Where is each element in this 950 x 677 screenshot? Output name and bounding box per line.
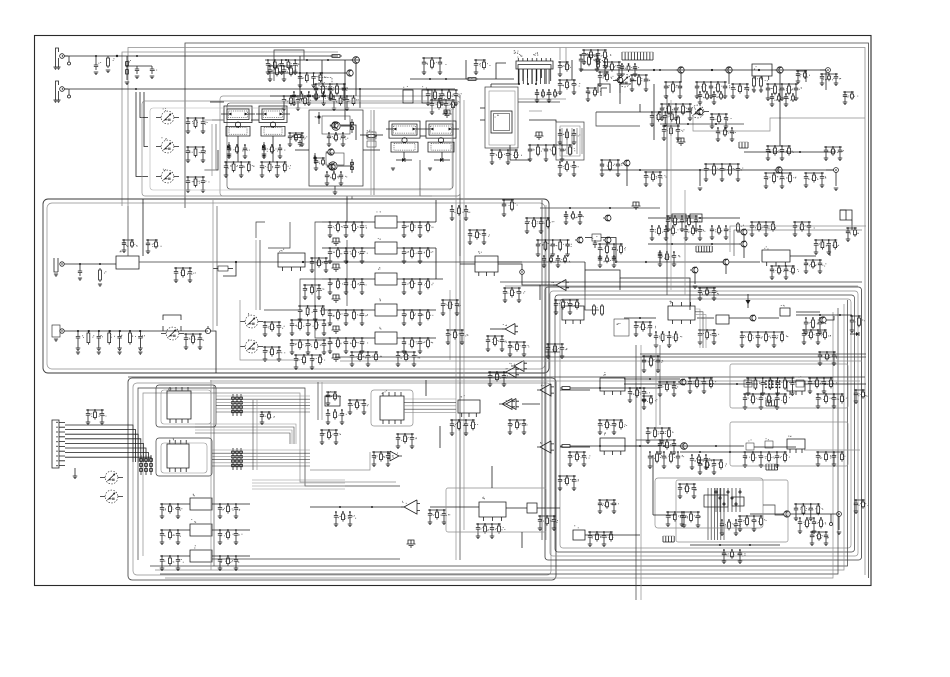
capacitor bank MR15 xyxy=(846,227,859,241)
capacitor bank TR15 xyxy=(600,159,624,176)
wire play to dolby xyxy=(211,331,216,373)
wire relay3 drop xyxy=(404,136,442,160)
capacitor bank U304 R xyxy=(402,309,434,325)
connector CN202 comb xyxy=(739,142,748,148)
pi filter FL310 xyxy=(632,202,641,209)
capacitor bank MR22 xyxy=(542,255,571,267)
capacitor bank play 2 xyxy=(184,333,204,349)
border frame outer xyxy=(35,36,872,586)
capacitor bank ML3 xyxy=(298,305,329,321)
wire tr corner xyxy=(806,70,826,90)
wire U301 in xyxy=(322,221,436,223)
comb CN501 xyxy=(766,464,778,470)
transistor Q101 xyxy=(330,122,338,128)
wire long v347 xyxy=(351,196,353,199)
wire U401 loop2 xyxy=(161,390,211,424)
wire bias rail xyxy=(410,78,514,80)
wire stair 1 xyxy=(347,196,362,222)
wire ce drop xyxy=(460,220,475,264)
capacitor bank U210 top xyxy=(122,239,138,252)
capacitor bank TR8 xyxy=(796,70,810,83)
capacitor bank TR28 xyxy=(770,93,799,106)
transistor Q501 xyxy=(782,511,790,517)
capacitor bank bm3 xyxy=(372,451,394,466)
capacitor bank MR21 xyxy=(628,387,650,402)
wire mr 244 wire xyxy=(648,243,740,245)
capacitor bank dolby 2 xyxy=(263,346,285,361)
diode D105 xyxy=(391,158,412,170)
capacitor bank bias xyxy=(426,89,462,105)
wire bottom bus 4 xyxy=(165,312,833,578)
capacitor C103 xyxy=(150,66,157,79)
wire long h json xyxy=(310,452,370,470)
IC U202 core xyxy=(491,111,512,133)
capacitor bank PS1 xyxy=(666,511,688,526)
IC U340 xyxy=(600,372,625,395)
wire mr link xyxy=(700,261,760,263)
capacitor bank C3 xyxy=(536,239,572,256)
wire mr row2 link xyxy=(796,314,852,316)
transistor Q321 xyxy=(678,379,686,385)
pi filter FL305 xyxy=(332,354,341,361)
capacitor bank bm4 xyxy=(396,433,417,448)
resistor R211 xyxy=(597,57,608,69)
IC U304 filter xyxy=(375,299,397,317)
IC U412 regulator xyxy=(190,545,212,562)
capacitor bank MR17 xyxy=(698,287,719,300)
capacitor bank AR3 xyxy=(646,427,674,443)
wire switch feed 1 xyxy=(140,92,148,118)
capacitor bank HA1 xyxy=(266,59,300,74)
capacitor bank reg0 R xyxy=(218,503,240,518)
resistor R102 xyxy=(125,56,131,85)
capacitor bank U303 R xyxy=(402,278,434,294)
wire ml link347 xyxy=(346,240,348,306)
capacitor bank PS4 xyxy=(854,499,869,513)
capacitor bank TR7 xyxy=(766,83,802,100)
wire reg1 xyxy=(160,529,250,531)
capacitor bank CE6 xyxy=(446,329,469,344)
IC U321 xyxy=(762,246,790,266)
IC U341 xyxy=(562,301,584,324)
capacitor bank CE1 xyxy=(450,205,470,220)
wire digital right pair xyxy=(318,382,322,420)
transistor Q322 xyxy=(679,443,688,450)
capacitor bank TR3 xyxy=(630,74,650,91)
node tr j1 xyxy=(653,69,760,71)
op-amp U425 xyxy=(401,500,420,514)
capacitor bank MR25 xyxy=(850,315,865,332)
IC U402 xyxy=(167,438,189,472)
transistor Q302 xyxy=(575,237,583,243)
capacitor bank TR6 xyxy=(731,83,753,98)
capacitor bank Q102 xyxy=(314,157,330,170)
capacitor bank MR2 xyxy=(750,221,776,236)
transistor Q102 xyxy=(326,149,334,155)
capacitor bank RB1 xyxy=(224,161,255,177)
capacitor C131 xyxy=(313,153,316,164)
node rec junction xyxy=(616,261,724,263)
wire branch down xyxy=(223,262,585,290)
transistor Q104 xyxy=(345,70,353,76)
wire tr chain2 xyxy=(640,111,692,113)
transistor Q103 xyxy=(327,164,335,170)
wire mid horizontal H1 xyxy=(128,376,865,378)
wire ps drop xyxy=(837,516,842,534)
wire vertical 656 xyxy=(656,340,660,430)
wire bm vert xyxy=(426,380,440,448)
wire vertical bus V1b xyxy=(459,95,461,560)
wire mid-right bus 2 xyxy=(505,285,858,287)
IC U302 filter xyxy=(375,238,397,254)
transistor Q202 xyxy=(724,67,732,73)
wire bottom bus 1 xyxy=(150,300,848,566)
IC U419 xyxy=(325,391,340,406)
capacitor bank DG1 xyxy=(326,391,341,405)
connector TP301 xyxy=(520,270,525,275)
connector TP502 xyxy=(830,514,833,526)
IC U421 xyxy=(458,395,480,417)
wire bottom-left nest 3 xyxy=(138,388,400,560)
capacitor bank MR10 xyxy=(650,225,679,240)
capacitor C212 xyxy=(658,250,662,262)
wire bm row507 xyxy=(310,506,404,508)
capacitor bank amp0 in xyxy=(658,381,678,396)
capacitor bank filter low2 xyxy=(396,351,420,366)
wire tr drop2 xyxy=(620,73,681,104)
capacitor bank TM5 xyxy=(474,59,491,74)
wire U302 in xyxy=(322,247,436,249)
wire amp row1 net xyxy=(624,383,758,385)
wire mr row330 xyxy=(624,317,656,319)
resistor R361 dashed xyxy=(796,376,804,387)
wire vertical bus V5b xyxy=(259,240,261,310)
IC U342 xyxy=(600,433,625,456)
wire branch node xyxy=(126,65,152,67)
capacitor bank PS2 xyxy=(810,531,829,545)
resistor R363 dashed xyxy=(765,438,773,448)
capacitor bank dolby 3 xyxy=(290,319,330,335)
ground q-stage xyxy=(333,186,338,195)
wire bm drop xyxy=(492,466,522,548)
capacitor bank right col xyxy=(854,389,869,403)
capacitor bank U204 xyxy=(558,129,581,144)
capacitor bank AR2 xyxy=(642,395,658,409)
resistor R131 xyxy=(351,159,354,173)
capacitor bank S102 xyxy=(186,146,206,162)
wire tr jack link xyxy=(826,170,838,191)
IC U331 xyxy=(716,315,729,324)
wire tr drop 654 xyxy=(653,84,655,140)
capacitor bank RB2 xyxy=(260,161,291,177)
wire mr drop b xyxy=(693,273,698,289)
wire relay drop xyxy=(238,136,273,162)
relay RY104 xyxy=(423,121,459,152)
wire vertical bus V3 xyxy=(541,200,543,540)
connector J201 rec-out xyxy=(54,258,64,276)
wire mid horizontal H2 xyxy=(210,380,860,382)
wire vertical bus V2 xyxy=(463,100,465,530)
IC U320 xyxy=(672,214,702,222)
capacitor bank TR18 xyxy=(804,172,827,187)
wire top bus C xyxy=(122,52,338,206)
wire top bus B xyxy=(128,48,865,576)
capacitor bank reg2 R xyxy=(218,555,240,570)
capacitor bank BM9 xyxy=(558,475,579,490)
pi filter FL301 xyxy=(332,238,341,245)
capacitor bank TR14 xyxy=(824,146,844,160)
wire vertical 667 xyxy=(667,95,671,295)
capacitor bank PS6 xyxy=(798,517,826,533)
wire head-amp loop xyxy=(220,96,460,196)
wire tr chain xyxy=(614,69,826,71)
capacitor bank TR4 xyxy=(664,81,683,98)
resistor R351 xyxy=(560,445,572,448)
capacitor bank HA2 xyxy=(298,72,327,87)
wire amp0 chain xyxy=(572,387,660,389)
wire bottom bus 2 xyxy=(155,304,844,570)
capacitor bank U425 in xyxy=(428,509,450,524)
capacitor bank QS1 xyxy=(327,132,348,146)
wire psu stair xyxy=(763,505,784,515)
capacitor bank TR26 xyxy=(620,63,639,76)
switch S210 xyxy=(161,327,184,340)
switch corner S206 xyxy=(620,84,631,93)
resistor R220 xyxy=(98,268,106,286)
capacitor bank TR13 xyxy=(766,145,794,160)
transistor Q107 xyxy=(327,162,337,170)
wire amp1 loop xyxy=(730,422,848,466)
wire ce stair xyxy=(436,200,443,279)
transistor Q303 xyxy=(603,237,611,243)
wire vertical bus V1 xyxy=(455,95,457,560)
wire loop pair xyxy=(371,110,374,195)
wire U305 in xyxy=(322,337,436,339)
capacitor bank U427 xyxy=(538,515,558,530)
capacitor bank TR2 xyxy=(603,61,624,76)
wire ps row xyxy=(690,544,780,546)
capacitor bank MR24 xyxy=(564,211,584,224)
switch S101 xyxy=(156,108,179,124)
capacitor bank MR18 xyxy=(634,321,656,336)
IC U310 xyxy=(475,251,498,276)
capacitor bank MR4 xyxy=(804,259,827,273)
capacitor bank BM11 xyxy=(326,409,347,424)
wire tr loop1 xyxy=(693,115,865,131)
capacitor bank psu1 xyxy=(682,511,701,527)
switch S402 xyxy=(100,490,123,503)
capacitor bank U202 left xyxy=(430,99,457,114)
node ml junction xyxy=(302,261,348,263)
capacitor bank MR27 xyxy=(804,317,827,334)
connector J102 line-in R xyxy=(53,81,70,102)
op-amp U428 xyxy=(387,451,402,461)
capacitor bank CE2 xyxy=(468,229,490,244)
switch S401 xyxy=(100,471,123,484)
IC U211 rec amp xyxy=(278,249,305,271)
capacitor bank C1 xyxy=(502,199,518,216)
wire vertical bus V4b xyxy=(640,345,642,600)
IC U301 filter xyxy=(375,211,397,228)
transistor Q313 xyxy=(690,267,698,273)
capacitor bank MR1 xyxy=(666,215,703,231)
capacitor bank TR25 xyxy=(582,49,612,64)
transistor Q210 xyxy=(592,234,601,241)
capacitor bank psu4 xyxy=(698,459,727,474)
capacitor bank between amps xyxy=(598,419,627,434)
wire relay row xyxy=(210,101,224,103)
wire q-stage stage1 box xyxy=(322,116,350,134)
wire mid-right bus 1 xyxy=(500,281,862,283)
IC U203 xyxy=(752,64,772,80)
connector TP202 xyxy=(834,168,839,173)
resistor array RA401 xyxy=(232,394,243,416)
wire tr row2b xyxy=(660,123,744,125)
resistor R311 zigzag xyxy=(593,304,604,316)
wire head row h170 xyxy=(205,150,218,170)
ground CN401 xyxy=(73,468,78,479)
wire mr row2 xyxy=(697,317,779,319)
capacitor bank MR5 xyxy=(740,331,789,347)
capacitor bank U302 R xyxy=(402,247,433,263)
wire switch feed 2 xyxy=(144,92,148,147)
capacitor bank dolby 5 xyxy=(294,354,325,369)
wire filter stair 1 xyxy=(268,222,290,248)
wire amp row1 out xyxy=(804,383,866,385)
switch S211 xyxy=(240,313,263,328)
IC U305 filter xyxy=(375,327,397,344)
IC U210 buffer xyxy=(116,251,139,270)
wire vertical bus V3b xyxy=(545,205,547,540)
capacitor C130 xyxy=(315,112,321,124)
pi filter FL201 xyxy=(443,110,452,117)
diode D101 xyxy=(227,142,232,157)
capacitor bank RY101 xyxy=(227,144,250,158)
connector CN401 xyxy=(52,420,65,468)
capacitor bank amp1 out2 xyxy=(816,451,846,466)
capacitor bank TR16 xyxy=(704,163,744,181)
capacitor bank reg1 L xyxy=(160,529,181,544)
wire filter stair 2 xyxy=(264,279,322,310)
resistor array RA403 xyxy=(140,455,153,475)
ground R212 xyxy=(752,88,763,92)
transistor Q301 xyxy=(603,215,611,221)
potentiometer VR201 xyxy=(205,326,210,334)
wire vertical 685 xyxy=(684,190,686,295)
IC U501 xyxy=(732,497,744,506)
capacitor bank BM7 xyxy=(320,429,341,444)
wire bottom bus 3 xyxy=(160,308,838,574)
wire top bus A xyxy=(185,43,869,578)
wire stair 2 xyxy=(359,89,361,108)
pi filter FL302 xyxy=(332,264,341,271)
IC U101b xyxy=(422,86,432,103)
capacitor bank MR16 xyxy=(770,265,799,279)
IC U202 xyxy=(485,87,518,148)
wire reg0 xyxy=(160,503,250,505)
switch S103 xyxy=(156,169,179,183)
wire U401 loop xyxy=(156,385,216,427)
wire head row h120 xyxy=(212,119,259,121)
wire amp row2 out xyxy=(754,447,860,450)
capacitor C132 xyxy=(438,95,445,104)
op-amp U312 xyxy=(502,324,518,335)
resistor R101 xyxy=(106,56,115,73)
wire ml rec right xyxy=(646,261,700,263)
capacitor bank TM2 xyxy=(314,83,348,100)
wire head net h73 xyxy=(268,72,345,74)
wire dip drop lines xyxy=(491,69,549,87)
wire dolby loop xyxy=(240,300,300,360)
op-amp U424 xyxy=(537,441,554,453)
transistor Q312 xyxy=(721,259,729,265)
resistor R132 xyxy=(292,133,303,148)
resistor R133 xyxy=(366,131,377,137)
resistor R201 xyxy=(466,78,478,81)
op-amp U313 xyxy=(509,361,527,372)
relay RY103 xyxy=(386,121,423,152)
resistor network RN201 xyxy=(163,315,181,331)
wire U210 up xyxy=(142,199,144,256)
wire q-stage outline xyxy=(309,110,363,186)
capacitor bank U426 xyxy=(476,523,506,538)
wire ml bus drop xyxy=(256,222,265,238)
capacitor bank head mid xyxy=(288,132,307,146)
wire U402 loop2 xyxy=(161,443,207,473)
capacitor bank TM1 xyxy=(268,65,297,81)
op-amp U311 xyxy=(551,280,569,291)
transistor Q203 xyxy=(775,67,783,73)
resistor R210 xyxy=(677,115,680,126)
wire vertical bus V4 xyxy=(635,345,637,600)
capacitor bank DIP left xyxy=(422,57,447,74)
connector TP201 xyxy=(820,68,830,73)
op-amp U423 xyxy=(537,384,554,396)
wire amp bus a xyxy=(335,356,866,358)
wire stair mr xyxy=(545,330,560,352)
capacitor bank S101 xyxy=(186,117,208,133)
op-amp U333 xyxy=(503,367,519,378)
wire tr loop4 xyxy=(734,230,862,256)
wire ce vert450 xyxy=(449,290,451,360)
wire digital bus 2 xyxy=(212,450,310,466)
wire opamp link xyxy=(490,285,556,329)
IC U332 xyxy=(780,305,790,316)
capacitor bank BM8 xyxy=(334,511,356,526)
wire vertical bus V5 xyxy=(255,240,257,310)
wire tr row4 drop xyxy=(627,166,702,191)
diode D311 xyxy=(746,294,751,308)
comb CN310 xyxy=(696,246,712,252)
resistor R212 xyxy=(753,76,760,88)
wire q-stage stage2 box xyxy=(326,153,344,165)
transistor Q311 xyxy=(739,241,747,247)
wire mid-left block outline xyxy=(43,199,549,373)
capacitor bank psu2 xyxy=(738,515,767,531)
diode D106 xyxy=(428,158,450,170)
wire U310 out xyxy=(498,261,522,263)
wire long stair A xyxy=(420,160,432,196)
capacitor bank TR20 xyxy=(650,111,678,126)
wire ml rec up xyxy=(127,206,129,256)
wire long stair B xyxy=(585,290,599,310)
switch corner S205 xyxy=(598,84,610,96)
capacitor bank MR6 xyxy=(698,329,719,344)
capacitor C102 xyxy=(135,66,140,79)
switch S310 dashed xyxy=(614,319,629,336)
wire mr 371 link xyxy=(624,378,680,380)
wire mid vertical 213 xyxy=(213,200,217,330)
